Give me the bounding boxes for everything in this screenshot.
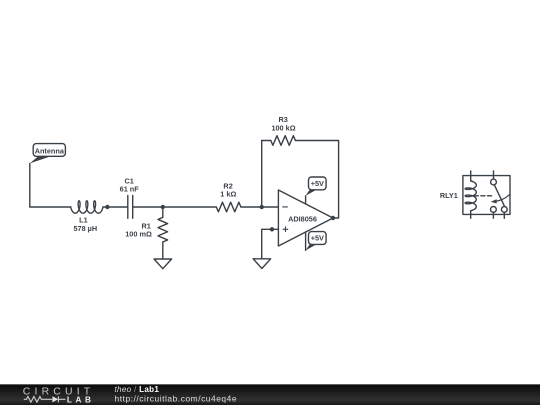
- logo resistor symbol: [24, 397, 52, 403]
- relay coil top pin: [470, 171, 472, 181]
- +5V supply flag bottom: [306, 232, 327, 251]
- wire antenna to L1: [30, 163, 71, 207]
- relay switch blade: [494, 185, 504, 207]
- node junction dot D on plus input: [270, 227, 274, 231]
- svg-text:61 nF: 61 nF: [120, 185, 140, 194]
- svg-text:http://circuitlab.com/cu4eq4e: http://circuitlab.com/cu4eq4e: [115, 394, 238, 404]
- ground symbol 1: [154, 259, 172, 269]
- wire plus input stub: [272, 228, 278, 230]
- wire node B to R1: [162, 207, 164, 217]
- wire R2 to op-amp inverting input: [241, 206, 279, 208]
- svg-text:RLY1: RLY1: [440, 191, 458, 200]
- node junction dot B: [161, 205, 165, 209]
- svg-text:100 kΩ: 100 kΩ: [271, 124, 295, 133]
- relay bottom contact circle left: [491, 207, 497, 213]
- resistor R3: [271, 136, 296, 146]
- wire feedback left vertical: [262, 141, 271, 208]
- wire C1 to R2: [133, 206, 217, 208]
- +5V supply flag top: [306, 177, 327, 196]
- node output junction dot: [331, 216, 335, 220]
- svg-text:578 µH: 578 µH: [73, 224, 97, 233]
- relay actuation arrow: [491, 194, 510, 203]
- op-amp V+ pin stub: [305, 196, 307, 204]
- op-amp U1 ADI8056: [278, 190, 333, 246]
- svg-text:LAB: LAB: [67, 396, 95, 405]
- wire ground branch from non-inverting input: [262, 229, 272, 258]
- relay actuation dashed line: [474, 195, 493, 197]
- relay bottom pin left: [492, 212, 494, 218]
- resistor R1: [158, 217, 168, 242]
- relay coil: [465, 181, 476, 211]
- relay bottom pin right: [503, 212, 505, 218]
- wire feedback right side to output: [295, 141, 338, 219]
- antenna flag: [30, 144, 66, 164]
- capacitor C1: [128, 196, 133, 219]
- svg-text:Antenna: Antenna: [35, 146, 65, 155]
- relay top contact circle: [491, 179, 497, 185]
- svg-text:R3: R3: [279, 115, 288, 124]
- svg-text:+5V: +5V: [311, 179, 324, 188]
- op-amp V- pin stub: [305, 232, 307, 251]
- node junction dot A: [105, 205, 109, 209]
- svg-text:+5V: +5V: [311, 234, 324, 243]
- relay RLY1 body box: [463, 176, 510, 215]
- op-amp plus symbol: [283, 227, 288, 232]
- footer bar: [0, 384, 540, 405]
- svg-text:ADI8056: ADI8056: [288, 214, 317, 223]
- svg-text:1 kΩ: 1 kΩ: [220, 190, 236, 199]
- ground symbol 2: [253, 259, 271, 269]
- inductor L1: [71, 201, 103, 213]
- op-amp minus symbol: [283, 206, 288, 208]
- relay coil bottom pin: [470, 211, 472, 219]
- svg-text:100 mΩ: 100 mΩ: [125, 230, 152, 239]
- wire R1 to ground: [162, 242, 164, 259]
- relay bottom contact circle right: [501, 207, 507, 213]
- logo diode symbol: [52, 396, 58, 402]
- resistor R2: [216, 202, 241, 212]
- node junction dot C: [260, 205, 264, 209]
- wire L1 to C1: [103, 206, 128, 208]
- relay common top pin: [493, 171, 495, 179]
